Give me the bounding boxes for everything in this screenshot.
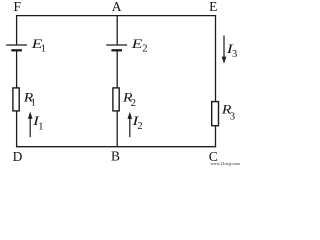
svg-text:D: D bbox=[13, 149, 23, 164]
svg-text:1: 1 bbox=[38, 121, 43, 132]
svg-text:3: 3 bbox=[230, 111, 235, 122]
svg-text:2: 2 bbox=[137, 121, 142, 132]
svg-text:A: A bbox=[112, 0, 122, 14]
svg-text:B: B bbox=[111, 148, 120, 163]
svg-text:2: 2 bbox=[142, 44, 147, 55]
svg-text:E: E bbox=[209, 0, 217, 14]
svg-text:3: 3 bbox=[232, 49, 237, 60]
svg-text:1: 1 bbox=[41, 43, 46, 54]
svg-text:1: 1 bbox=[31, 98, 36, 109]
svg-text:2: 2 bbox=[131, 98, 136, 109]
svg-text:www.21cnjy.com: www.21cnjy.com bbox=[211, 161, 241, 166]
svg-text:E: E bbox=[130, 36, 142, 51]
svg-text:F: F bbox=[13, 0, 21, 14]
